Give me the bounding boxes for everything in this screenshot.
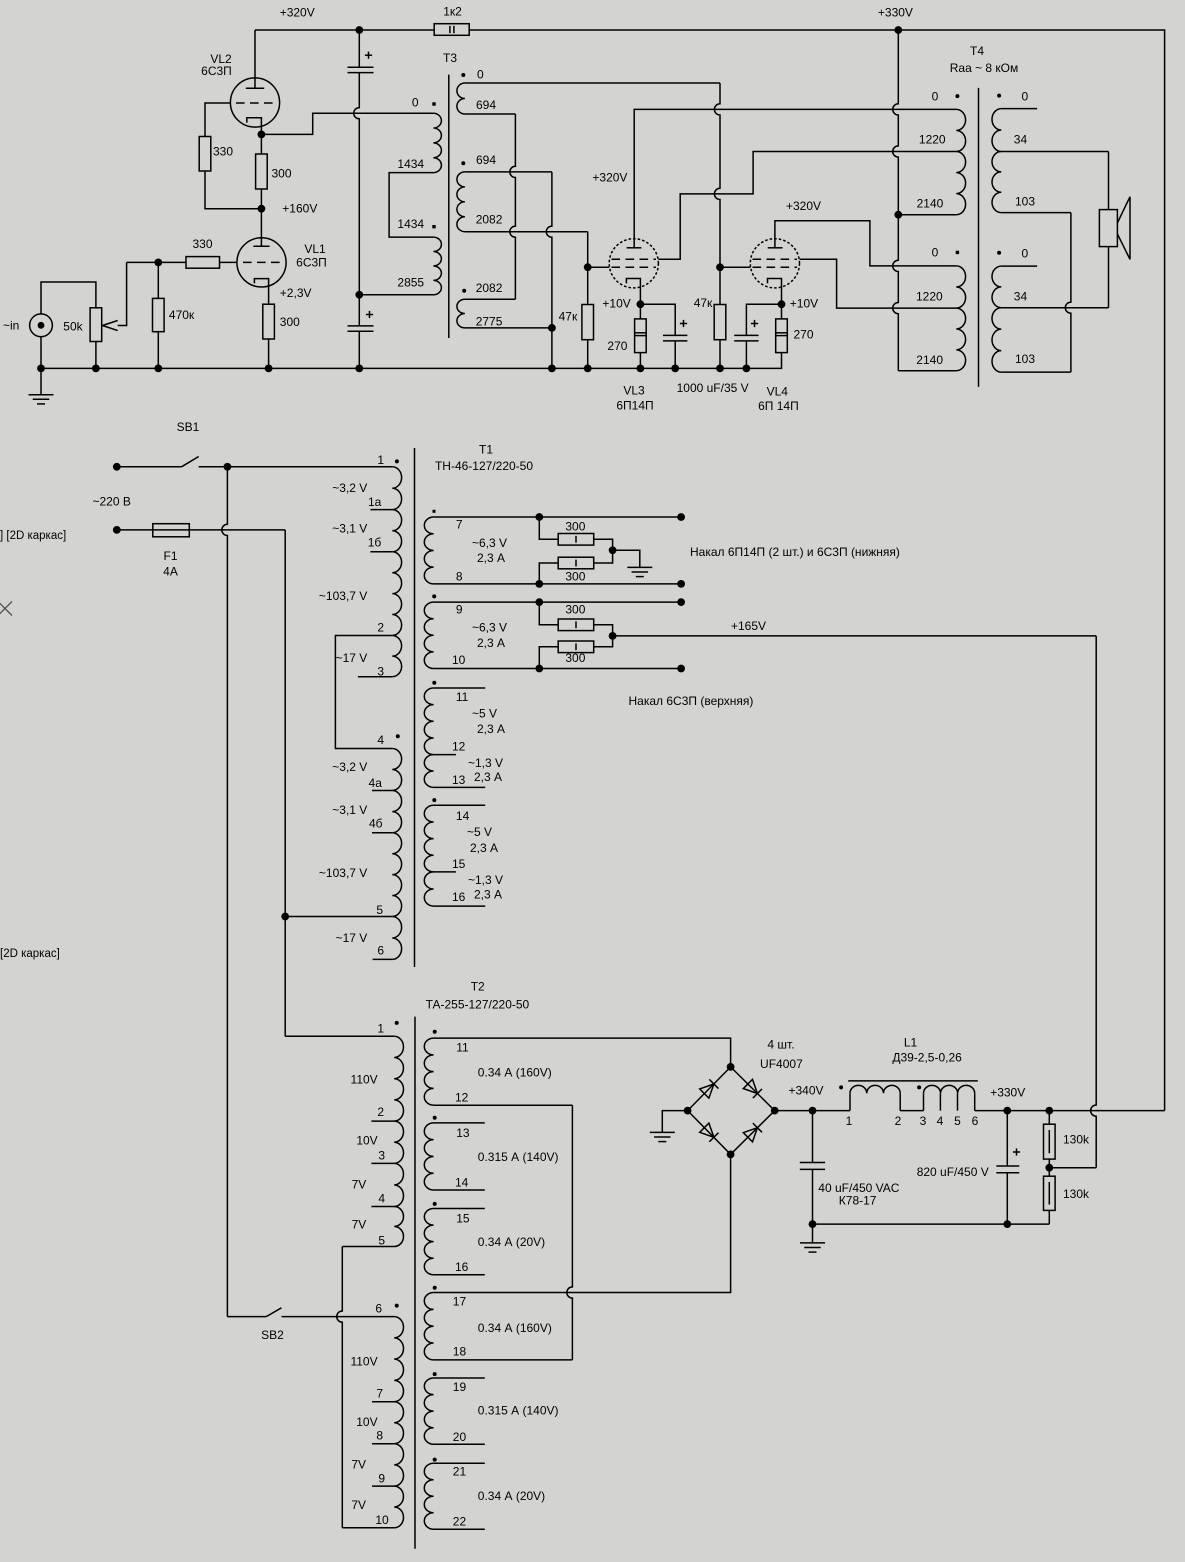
svg-text:4б: 4б [369, 817, 383, 831]
wire T2 pin3 stub [371, 1162, 394, 1164]
svg-text:0.34 А (20V): 0.34 А (20V) [478, 1235, 545, 1249]
label Т4 [970, 44, 984, 58]
label Т3 [443, 51, 457, 65]
label Т2 [471, 979, 485, 993]
label 470к [169, 308, 195, 322]
transformer T4 secondary lower 103 [992, 308, 1001, 372]
label T1 pin11 [456, 690, 469, 704]
svg-text:2082: 2082 [476, 281, 503, 295]
svg-text:VL3: VL3 [623, 383, 645, 397]
label +320V [280, 6, 315, 20]
label T1 2,3А d [474, 770, 502, 784]
transformer T1 core [414, 448, 416, 967]
svg-text:10V: 10V [356, 1415, 377, 1429]
svg-text:47к: 47к [559, 310, 578, 324]
svg-text:~in: ~in [3, 319, 19, 333]
svg-text:~3,2 V: ~3,2 V [332, 760, 367, 774]
label T4 P1 0 [932, 89, 939, 103]
tube VL4 screen grid [753, 258, 798, 260]
resistor 330 VL1 grid [186, 257, 220, 269]
label 330 VL1 [192, 237, 212, 251]
label T1 pin12 [452, 740, 466, 754]
svg-text:+320V: +320V [280, 6, 315, 20]
transformer T4 primary upper 2140 [956, 152, 965, 215]
wire L1 link [900, 1110, 923, 1112]
svg-text:1: 1 [377, 1022, 384, 1036]
label T4 1220 l [916, 289, 943, 303]
label VL1 [304, 242, 326, 256]
label Raa ~ 8 кОм [950, 61, 1019, 75]
svg-text:6П14П: 6П14П [616, 399, 653, 413]
label T1 2,3А a [477, 551, 505, 565]
label T4 P2 0 [932, 246, 939, 260]
transformer T3 core [448, 75, 450, 338]
wire T1 pin4a stub [372, 790, 392, 792]
node 165V divider [1045, 1164, 1053, 1172]
svg-text:300: 300 [565, 520, 585, 534]
wire VL2 grid to R330 [205, 103, 231, 137]
label Т1 type [435, 459, 533, 473]
svg-text:+330V: +330V [878, 6, 913, 20]
node T4 S2 phase dot [997, 251, 1001, 255]
svg-text:Т1: Т1 [479, 443, 493, 457]
node bridge top [727, 1063, 735, 1071]
label L1 pin3 [920, 1114, 927, 1128]
tube VL4 plate [768, 247, 783, 249]
node w7 b [677, 513, 685, 521]
svg-text:694: 694 [476, 153, 496, 167]
node junction +320V rail to C1 [355, 26, 363, 34]
label T1 pin1a [368, 495, 382, 509]
label T2 pin13 [456, 1126, 470, 1140]
node bus 470к [154, 365, 162, 373]
label T4 34 l [1014, 289, 1028, 303]
label 300 VL2 [272, 167, 292, 181]
label T1 pin8 [456, 570, 463, 584]
svg-text:10: 10 [375, 1513, 389, 1527]
label T1 6,3V b [472, 621, 507, 635]
svg-text:6: 6 [375, 1302, 382, 1316]
svg-text:1a: 1a [368, 495, 382, 509]
tube VL2 plate [246, 30, 264, 88]
svg-text:~103,7 V: ~103,7 V [319, 589, 367, 603]
svg-text:16: 16 [452, 890, 466, 904]
inductor L1 coil 2 [924, 1085, 975, 1110]
wire T2 pin17 to bridge [434, 1154, 731, 1292]
tube VL3 cathode [626, 279, 640, 305]
node T2 pin6 phase dot [395, 1304, 399, 1308]
transformer T1 primary 4-4a [392, 749, 401, 791]
wire T2 pin8 stub [372, 1443, 394, 1445]
node bus 47к VL4 [716, 365, 724, 373]
wire T2 pin11 to bridge [434, 1038, 731, 1067]
transformer T4 primary lower 1220 [956, 266, 965, 308]
label T2 110V b [350, 1355, 377, 1369]
svg-text:14: 14 [455, 1176, 469, 1190]
svg-text:5: 5 [954, 1114, 961, 1128]
node w8 a [535, 580, 543, 588]
label L1 pin2 [895, 1114, 902, 1128]
svg-text:1000 uF/35 V: 1000 uF/35 V [677, 381, 749, 395]
svg-text:2,3 А: 2,3 А [474, 770, 502, 784]
ground bridge [650, 1132, 675, 1141]
label T1 2,3А e [470, 841, 498, 855]
label UF4007 [760, 1057, 803, 1071]
svg-text:1434: 1434 [397, 217, 424, 231]
svg-text:ТН-46-127/220-50: ТН-46-127/220-50 [435, 459, 533, 473]
node VL3 +10V [637, 300, 645, 308]
wire +330V rail right and down [898, 30, 1164, 1111]
svg-text:50k: 50k [63, 320, 83, 334]
wire T4 S2 bottom link [1001, 371, 1071, 373]
resistor 47к VL3 grid [582, 267, 594, 368]
ground main [29, 368, 54, 404]
node T2 S15 phase dot [433, 1202, 437, 1206]
svg-text:6: 6 [377, 944, 384, 958]
label T2 pin12 [455, 1091, 469, 1105]
transformer T2 core [414, 1017, 416, 1549]
label T2 pin7 [376, 1387, 383, 1401]
wire T4 S1 bottom link [1001, 213, 1071, 373]
svg-text:~1,3 V: ~1,3 V [468, 756, 503, 770]
connector mains L terminal [113, 463, 121, 471]
label T1 3,1V b [332, 803, 367, 817]
label T2 0.34 c [478, 1321, 552, 1335]
diode VD4 [743, 1123, 762, 1142]
svg-text:2082: 2082 [476, 212, 503, 226]
label T2 pin5 [378, 1234, 385, 1248]
node bus C2 [355, 365, 363, 373]
wire T1 pin15 stub [434, 871, 456, 873]
svg-text:~3,1 V: ~3,1 V [332, 522, 367, 536]
node T4 S1 phase dot [997, 94, 1001, 98]
wire T4 S2 top stub [1001, 265, 1037, 267]
resistor 300 heater d [539, 636, 612, 669]
svg-text:2: 2 [377, 1105, 384, 1119]
wire T2 pin2 stub [371, 1120, 394, 1122]
label T1 pin2 [377, 621, 384, 635]
resistor 300 VL2 cathode [256, 134, 268, 208]
label T1 pin7 [456, 518, 463, 532]
transformer T1 primary 5-6 [392, 917, 401, 960]
svg-text:2: 2 [895, 1114, 902, 1128]
svg-text:~17 V: ~17 V [336, 931, 368, 945]
node w8 b [677, 580, 685, 588]
svg-text:34: 34 [1014, 133, 1028, 147]
wire mains line 1 down to SB2 [222, 467, 266, 1317]
node w7 a [535, 513, 543, 521]
node bus 1000uF VL4 [743, 365, 751, 373]
resistor 300 heater c [539, 602, 612, 636]
label T1 103,7V a [319, 589, 367, 603]
transformer T2 primary 1-2 [394, 1036, 403, 1121]
label ~220 В [93, 495, 131, 509]
wire T1 pin4б stub [372, 832, 392, 834]
diode VD1 [700, 1079, 719, 1098]
transformer T3 secondary S1 [457, 83, 465, 114]
transformer T2 secondary 19-20 [424, 1378, 433, 1444]
node T1 pin5 junction [281, 913, 289, 921]
wire T2 pin4 stub [371, 1206, 394, 1208]
svg-text:+320V: +320V [786, 199, 821, 213]
transformer T2 secondary 15-16 [424, 1209, 433, 1275]
node T2 S17 phase dot [433, 1286, 437, 1290]
transformer T2 primary 3-4 [394, 1163, 403, 1206]
wire T1 pin14 stub [434, 804, 486, 806]
label T1 pin16 [452, 890, 466, 904]
wire VL4 grid [720, 266, 751, 268]
label +10V VL4 [790, 296, 818, 310]
svg-text:21: 21 [453, 1465, 467, 1479]
wire T1 pin6 stub [373, 958, 393, 960]
transformer T4 secondary lower 34 [992, 266, 1001, 308]
wire +160V to VL1 plate [260, 209, 262, 247]
svg-text:1: 1 [377, 453, 384, 467]
label T2 10V b [356, 1415, 377, 1429]
node w9 a [535, 598, 543, 606]
potentiometer 50k [90, 308, 102, 342]
node T3 S3 bottom junction [548, 324, 556, 332]
label T2 pin8 [376, 1429, 383, 1443]
svg-text:1220: 1220 [916, 289, 943, 303]
transformer T2 secondary 21-22 [424, 1463, 433, 1529]
transformer T2 primary 6-7 [394, 1317, 403, 1402]
resistor 130k lower [1044, 1168, 1056, 1224]
transformer T4 primary upper 1220 [956, 109, 965, 151]
diode VD2 [743, 1079, 762, 1098]
wire bridge minus to ground [662, 1111, 687, 1133]
svg-text:4А: 4А [163, 565, 178, 579]
wire pot bottom to ground bus [95, 342, 97, 369]
label T1 103,7V b [319, 866, 367, 880]
svg-text:47к: 47к [694, 296, 713, 310]
node bus 47к VL3 [584, 365, 592, 373]
node VL3 grid [584, 263, 592, 271]
label T1 pin5 [376, 903, 383, 917]
label Т2 type [426, 998, 530, 1012]
transformer T2 primary 9-10 [394, 1486, 403, 1528]
wire VL3 plate to T4 [634, 109, 956, 247]
wire mains line 2 down to T2 pin1 [285, 530, 394, 1036]
label T2 7V c [351, 1458, 366, 1472]
wire T1 pin10 [434, 668, 681, 670]
label T3 2775 [476, 315, 503, 329]
svg-text:300: 300 [272, 167, 292, 181]
label T2 pin3 [378, 1149, 385, 1163]
node T3 primary phase dot b [432, 225, 435, 228]
svg-text:2140: 2140 [917, 197, 944, 211]
wire speaker return [1108, 247, 1110, 308]
label SB2 [261, 1328, 284, 1342]
capacitor C2 electrolytic [348, 295, 374, 369]
wire ground bus [41, 353, 782, 369]
svg-text:Т2: Т2 [471, 979, 485, 993]
svg-text:+10V: +10V [602, 296, 630, 310]
label T4 103 u [1015, 195, 1035, 209]
transformer T4 core [978, 88, 980, 387]
node T1 S11 phase dot [432, 681, 436, 685]
node bridge right [771, 1107, 779, 1115]
label T3 694 b [476, 153, 496, 167]
svg-text:+330V: +330V [990, 1086, 1025, 1100]
tube VL4 cathode [768, 279, 782, 305]
svg-text:2140: 2140 [916, 353, 943, 367]
svg-text:17: 17 [453, 1295, 467, 1309]
wire input node to R330h [127, 261, 186, 263]
label T1 3,2V a [332, 481, 367, 495]
node SB1 junction [224, 463, 232, 471]
svg-text:SB2: SB2 [261, 1328, 284, 1342]
svg-text:1220: 1220 [919, 133, 946, 147]
wire PSU bottom [813, 1223, 1050, 1225]
svg-text:2775: 2775 [476, 315, 503, 329]
svg-text:6: 6 [972, 1114, 979, 1128]
label T4 S2 0 [1021, 247, 1028, 261]
svg-text:+340V: +340V [789, 1084, 824, 1098]
resistor 300 heater a [539, 517, 612, 550]
node bridge bottom [727, 1151, 735, 1159]
label Т1 [479, 443, 493, 457]
svg-text:К78-17: К78-17 [839, 1194, 877, 1208]
label T2 10V a [356, 1134, 377, 1148]
node T2 S19 phase dot [433, 1372, 437, 1376]
wire T3 S1 bottom to S3 top [465, 114, 516, 299]
label T1 pin1 [377, 453, 384, 467]
svg-text:6С3П: 6С3П [296, 256, 327, 270]
node T3 S1 phase dot [461, 73, 465, 77]
wire T2 pin18 link [434, 1359, 573, 1361]
svg-text:+2,3V: +2,3V [280, 286, 312, 300]
svg-text:9: 9 [456, 603, 463, 617]
wire T3 S3 bottom [465, 327, 552, 329]
label T2 pin4 [378, 1192, 385, 1206]
label T1 pin3 [377, 665, 384, 679]
svg-text:~103,7 V: ~103,7 V [319, 866, 367, 880]
wire T1 pin13 stub [434, 786, 486, 788]
wire SB1 to T1 pin1 [227, 466, 392, 468]
svg-text:694: 694 [476, 98, 496, 112]
label T3 0 primary [412, 96, 419, 110]
label T2 7V b [352, 1218, 367, 1232]
label 300 heater b [565, 569, 585, 583]
label 270 VL3 [607, 339, 627, 353]
node bus pot [92, 365, 100, 373]
wire T1 pin9 [434, 601, 681, 603]
wire R330 to +160V node [205, 171, 261, 209]
label L1 pin4 [937, 1114, 944, 1128]
label T3 694 a [476, 98, 496, 112]
node T2 S13 phase dot [433, 1116, 437, 1120]
tube VL2 cathode [247, 118, 262, 135]
label T2 pin20 [453, 1430, 467, 1444]
svg-text:2: 2 [377, 621, 384, 635]
wire T2 pin15 stub [434, 1208, 485, 1210]
wire T2 pin22 stub [434, 1528, 485, 1530]
wire T1 pin7 [434, 516, 681, 518]
capacitor 820uF [996, 1111, 1020, 1225]
transformer T1 primary 4a-4б [392, 791, 401, 833]
wire bridge frame [688, 1067, 775, 1155]
transformer T1 secondary 12-13 [424, 755, 433, 788]
svg-text:ТА-255-127/220-50: ТА-255-127/220-50 [426, 998, 530, 1012]
label L1 pin1 [846, 1114, 853, 1128]
node bus 1000uF VL3 [671, 365, 679, 373]
label +320V VL3 [592, 171, 627, 185]
ground heater [627, 567, 652, 576]
node 40uF bottom [809, 1220, 817, 1228]
label T3 1434 a [397, 157, 424, 171]
label T2 0.315 a [478, 1150, 559, 1164]
label T1 1,3V a [468, 756, 503, 770]
label T2 pin16 [455, 1260, 469, 1274]
svg-text:1: 1 [846, 1114, 853, 1128]
label T2 0.34 a [478, 1066, 552, 1080]
svg-text:Т3: Т3 [443, 51, 457, 65]
svg-text:2,3 А: 2,3 А [477, 636, 505, 650]
leftover CAD panel text artifacts [0, 530, 66, 960]
label T1 2,3А b [477, 636, 505, 650]
svg-text:103: 103 [1015, 195, 1035, 209]
wire T2 pin14 stub [434, 1189, 485, 1191]
resistor 130k upper [1044, 1111, 1056, 1168]
wire C1 down to T3 primary bottom [354, 73, 360, 295]
svg-text:1434: 1434 [397, 157, 424, 171]
label T1 pin10 [452, 653, 466, 667]
label T1 5V a [472, 707, 497, 721]
label T2 pin2 [377, 1105, 384, 1119]
svg-text:+160V: +160V [282, 201, 317, 215]
svg-text:13: 13 [452, 773, 466, 787]
label 1000 uF/35 V [677, 381, 749, 395]
transformer T1 primary 2-3 [392, 636, 401, 677]
label VL1 type 6С3П [296, 256, 327, 270]
node +160V [258, 205, 266, 213]
svg-text:330: 330 [213, 144, 233, 158]
label 40 uF/450 VAC [818, 1181, 899, 1195]
label T2 7V a [352, 1178, 367, 1192]
svg-text:Накал 6П14П (2 шт.) и 6С3П (ни: Накал 6П14П (2 шт.) и 6С3П (нижняя) [690, 545, 900, 559]
node T1 S910 phase dot [432, 594, 436, 598]
svg-text:300: 300 [565, 569, 585, 583]
label T1 17V b [336, 931, 368, 945]
wire T4 centre feed [893, 30, 957, 371]
svg-text:0.34 А (160V): 0.34 А (160V) [478, 1321, 552, 1335]
label Д39-2,5-0,26 [892, 1051, 962, 1065]
wire T1 pin1a stub [370, 509, 392, 511]
node T2 S11 phase dot [433, 1030, 437, 1034]
svg-text:2,3 А: 2,3 А [474, 888, 502, 902]
svg-text:130k: 130k [1063, 1133, 1090, 1147]
tube VL2 envelope [230, 78, 279, 127]
label T2 110V a [351, 1072, 378, 1086]
tube VL1 grid [243, 261, 280, 263]
node 820uF top [1003, 1107, 1011, 1115]
label SB1 [177, 420, 200, 434]
tube VL1 envelope [237, 238, 286, 287]
label F1 [163, 549, 177, 563]
label T2 pin17 [453, 1295, 467, 1309]
svg-text:34: 34 [1014, 289, 1028, 303]
svg-text:470к: 470к [169, 308, 195, 322]
wire T4 S2 tap to speaker return [1001, 307, 1108, 309]
svg-text:10: 10 [452, 653, 466, 667]
label 300 heater c [565, 602, 585, 616]
wire VL1 cathode resistor to ground [268, 339, 270, 368]
label T2 0.315 b [478, 1404, 559, 1418]
transformer T1 primary 1б-2 [392, 552, 401, 636]
svg-text:0: 0 [477, 67, 484, 81]
svg-text:Raa ~ 8 кОм: Raa ~ 8 кОм [950, 61, 1019, 75]
